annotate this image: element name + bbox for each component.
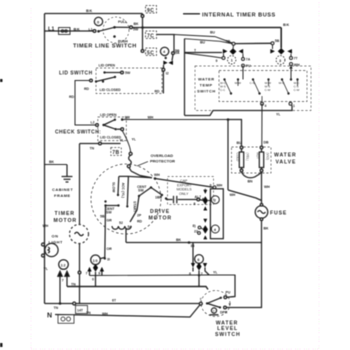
WH riser wire bbox=[227, 118, 262, 200]
svg-text:SWITCH: SWITCH bbox=[215, 332, 241, 338]
svg-text:(YEL): (YEL) bbox=[246, 153, 250, 161]
svg-text:FRAME: FRAME bbox=[54, 193, 71, 198]
cam 3 circle bbox=[276, 56, 285, 65]
pivot dot a bbox=[95, 80, 97, 82]
svg-text:7: 7 bbox=[200, 298, 202, 302]
cam 1 left triangle bbox=[223, 49, 228, 54]
cam 6 left stem lower bbox=[192, 268, 194, 272]
on light bbox=[42, 243, 59, 257]
bottom rail wire y241 bbox=[126, 241, 262, 244]
svg-text:3I: 3I bbox=[107, 258, 110, 262]
svg-text:8): 8) bbox=[193, 224, 196, 228]
svg-text:LID SWITCH: LID SWITCH bbox=[59, 71, 93, 77]
wire y275 rail bbox=[90, 275, 236, 297]
winding arcs bbox=[112, 226, 131, 229]
check blade upper bbox=[104, 120, 115, 125]
top border wire bbox=[45, 13, 143, 15]
svg-text:14T: 14T bbox=[77, 309, 84, 313]
svg-text:LID CLOSED: LID CLOSED bbox=[100, 136, 122, 140]
svg-text:W-C: W-C bbox=[279, 81, 286, 85]
temp switch bottom terminal 1 bbox=[289, 102, 292, 105]
lid switch 5W terminal bbox=[121, 71, 124, 74]
svg-text:BK: BK bbox=[264, 227, 270, 231]
cam 6 right triangle bbox=[203, 263, 207, 268]
bottom rail y303 bbox=[45, 302, 201, 305]
RD wire lid to check switch bbox=[75, 81, 96, 126]
svg-text:7B: 7B bbox=[112, 150, 119, 156]
fuse wire down bbox=[227, 221, 262, 308]
left border wire bbox=[44, 14, 46, 304]
svg-text:GR: GR bbox=[107, 219, 113, 223]
timer cam 3 bbox=[270, 42, 293, 80]
wire T line left vertical bbox=[185, 39, 293, 116]
svg-text:TIMER: TIMER bbox=[55, 211, 75, 217]
OR node dot bbox=[104, 257, 106, 259]
svg-text:ACC (YL): ACC (YL) bbox=[121, 183, 125, 198]
7B box bbox=[111, 148, 122, 156]
lower terminal circle bbox=[121, 128, 124, 131]
wire upper terminal to x235 bbox=[227, 275, 235, 297]
overload leader line bbox=[137, 162, 148, 167]
TN wire to 7B bbox=[80, 142, 121, 225]
acc tap bbox=[127, 176, 128, 205]
svg-text:1BR: 1BR bbox=[155, 196, 162, 200]
cam 4 circle bbox=[160, 47, 168, 55]
pivot contact dot bbox=[97, 30, 100, 33]
contact stubs bbox=[237, 80, 239, 87]
cent sw blades bbox=[139, 188, 151, 197]
WH wire down to temp switch bbox=[290, 69, 292, 80]
svg-text:5C: 5C bbox=[147, 50, 154, 56]
check blade lower bbox=[104, 125, 116, 129]
left riser x=184.5 bbox=[184, 39, 186, 116]
plug inner circle bbox=[61, 317, 65, 321]
cam 3 left stem bbox=[272, 45, 274, 49]
bus vertical wire bbox=[142, 14, 144, 50]
5B crossbar bbox=[235, 42, 271, 44]
wire L1 to timer line switch bbox=[45, 30, 95, 32]
bus wire horizontal bbox=[143, 27, 282, 29]
terminal I2 circle bbox=[162, 68, 165, 71]
svg-text:SW: SW bbox=[106, 211, 112, 215]
cam 4 lower terminals bbox=[198, 226, 201, 229]
upper contact dot bbox=[114, 119, 116, 121]
BU wire upper bbox=[174, 35, 232, 44]
9C box bbox=[146, 6, 157, 14]
cam 3 right triangle bbox=[287, 49, 292, 54]
svg-text:7C: 7C bbox=[147, 33, 154, 39]
cam 4 left triangle bbox=[163, 61, 167, 66]
RD wire down to lid switch bbox=[162, 71, 164, 93]
valve terminal top left bbox=[240, 146, 243, 149]
svg-text:5B: 5B bbox=[175, 49, 180, 53]
timer line switch pivot terminal bbox=[93, 30, 96, 33]
svg-text:ON: ON bbox=[52, 234, 59, 239]
water temp switch outer dashed box bbox=[195, 66, 311, 111]
cam 4 right triangle bbox=[168, 61, 173, 66]
timer line switch bbox=[93, 17, 142, 43]
TN horizontal wire bbox=[80, 143, 121, 145]
cam 6 diamond stem down bbox=[198, 271, 200, 287]
WLS dashed circle bbox=[201, 291, 230, 317]
valve terminal bottom right bbox=[260, 169, 263, 172]
svg-text:BU: BU bbox=[210, 31, 216, 35]
svg-text:LID CLOSED: LID CLOSED bbox=[100, 88, 122, 92]
blade up bbox=[207, 298, 221, 304]
slow tap bbox=[117, 176, 120, 194]
svg-text:1: 1 bbox=[293, 104, 295, 108]
junction dot cam12 bbox=[59, 302, 62, 305]
svg-text:COLD: COLD bbox=[236, 153, 240, 163]
svg-text:CHECK SWITCH:: CHECK SWITCH: bbox=[55, 130, 101, 136]
svg-text:SW: SW bbox=[138, 189, 144, 193]
svg-text:TEMP: TEMP bbox=[200, 83, 213, 88]
svg-text:7: 7 bbox=[62, 279, 64, 283]
T wire bbox=[185, 53, 223, 58]
svg-text:2: 2 bbox=[214, 198, 217, 203]
svg-text:INTERNAL TIMER BUSS: INTERNAL TIMER BUSS bbox=[202, 12, 276, 18]
cam 2 contact triangles bbox=[203, 190, 207, 194]
svg-text:4: 4 bbox=[265, 104, 267, 108]
start winding wire bbox=[130, 196, 139, 222]
lower terminal bbox=[224, 306, 227, 309]
9C terminal circle bbox=[141, 15, 144, 18]
svg-text:LIGHT: LIGHT bbox=[49, 240, 64, 245]
T branch bbox=[185, 52, 223, 54]
svg-text:9: 9 bbox=[98, 272, 100, 276]
14T box bbox=[76, 306, 88, 314]
cam 1 diamond bbox=[230, 48, 237, 54]
svg-text:8: 8 bbox=[194, 202, 196, 206]
pivot dot bbox=[206, 302, 208, 304]
temp switch bottom terminal 4 bbox=[261, 102, 264, 105]
svg-text:START: START bbox=[133, 201, 137, 213]
svg-text:TN: TN bbox=[71, 283, 76, 287]
junction dot bus bbox=[141, 26, 144, 29]
cam 12 left triangle bbox=[58, 271, 62, 303]
cam 1 left stem bbox=[223, 54, 225, 57]
WH wire check switch to right bbox=[124, 119, 229, 121]
timer motor bbox=[70, 225, 89, 304]
capacitor dashed box bbox=[168, 177, 214, 205]
terminal WH circle bbox=[290, 63, 293, 66]
svg-text:WH: WH bbox=[230, 193, 236, 197]
internal timer buss main BK wire bbox=[143, 28, 282, 49]
cam 6 diamond bbox=[196, 263, 201, 271]
svg-text:5B: 5B bbox=[100, 215, 105, 219]
wire lower contact to terminal bbox=[117, 128, 121, 130]
svg-text:MOTOR: MOTOR bbox=[54, 218, 77, 224]
terminal 5B circle bbox=[172, 52, 175, 55]
edge tick top bbox=[0, 79, 3, 82]
BU wire lower bbox=[185, 39, 233, 44]
cam 3 left triangle bbox=[270, 49, 275, 54]
overload protector bbox=[127, 152, 132, 171]
svg-text:9: 9 bbox=[216, 59, 218, 63]
water temp switch inner dashed box bbox=[219, 71, 307, 102]
cam 6 left stem bbox=[192, 243, 194, 264]
PUSH contact dot bbox=[113, 35, 116, 38]
cam 1 right stem bbox=[242, 54, 244, 58]
svg-text:BK: BK bbox=[49, 160, 55, 164]
page border dotted left bbox=[30, 8, 32, 349]
wire temp contact stubs to terminals bbox=[261, 96, 263, 102]
svg-text:BK: BK bbox=[134, 22, 140, 26]
vertical x228 bbox=[227, 120, 229, 191]
wire PULL contact to terminal bbox=[115, 26, 130, 28]
motor lower blade bbox=[106, 205, 119, 207]
legend line bbox=[183, 13, 200, 15]
cam 1 right triangle bbox=[239, 49, 244, 54]
noise filter box bbox=[59, 28, 71, 35]
svg-text:TN: TN bbox=[86, 311, 91, 315]
svg-text:N: N bbox=[47, 313, 52, 320]
svg-text:12: 12 bbox=[61, 263, 67, 268]
svg-text:LID OPEN: LID OPEN bbox=[100, 113, 117, 117]
temp switch tiny labels bbox=[220, 81, 300, 92]
cam 12 right triangle bbox=[65, 271, 69, 286]
svg-text:WATER: WATER bbox=[274, 153, 297, 159]
valve terminal top right bbox=[260, 146, 263, 149]
cam 4 left stem bbox=[163, 65, 165, 68]
cam 3 diamond bbox=[278, 48, 285, 54]
timer cam 2 bbox=[203, 189, 220, 211]
7C box bbox=[146, 31, 157, 39]
svg-text:RD: RD bbox=[155, 90, 161, 94]
blade 3 bbox=[282, 80, 289, 94]
coil leads bbox=[241, 149, 243, 152]
cam 4 follower dot bbox=[165, 57, 167, 59]
diaphragm circle bbox=[211, 308, 216, 313]
node dot on WH wire bbox=[227, 118, 230, 121]
cam2 box top terminal bbox=[213, 186, 216, 189]
text CAP EXPORT MODELS ONLY bbox=[177, 179, 193, 196]
svg-text:7A: 7A bbox=[246, 58, 251, 62]
svg-text:54: 54 bbox=[128, 225, 132, 229]
svg-text:CABINET: CABINET bbox=[52, 187, 73, 192]
svg-text:LID OPEN: LID OPEN bbox=[99, 64, 116, 68]
valve common wires bbox=[242, 172, 262, 178]
pivot dot b bbox=[102, 80, 104, 82]
cam 3 right stem bbox=[290, 54, 292, 57]
neutral wire bbox=[55, 305, 200, 318]
svg-text:VALVE: VALVE bbox=[276, 160, 297, 166]
svg-text:A) 7: A) 7 bbox=[195, 195, 202, 199]
timer terminal bus 9C-7C-5C bbox=[141, 6, 156, 56]
svg-text:L1: L1 bbox=[89, 28, 93, 32]
svg-text:L1: L1 bbox=[48, 27, 54, 33]
cam 10 right stem bbox=[101, 272, 103, 276]
terminal 7T circle bbox=[290, 57, 293, 60]
fuse bbox=[227, 204, 268, 308]
lid switch bbox=[90, 68, 162, 94]
PULL contact dot bbox=[113, 26, 116, 29]
svg-text:9: 9 bbox=[210, 183, 212, 187]
svg-text:C-S: C-S bbox=[250, 81, 255, 85]
svg-text:WH: WH bbox=[217, 183, 223, 187]
svg-text:5W: 5W bbox=[125, 71, 131, 75]
YL wire across bottom bbox=[185, 105, 293, 115]
lid switch dashed box bbox=[96, 68, 162, 94]
blade tip dot bbox=[114, 76, 116, 78]
svg-text:W-W: W-W bbox=[235, 81, 242, 85]
5B terminal circle bbox=[232, 42, 235, 45]
bus wire drop right bbox=[280, 28, 282, 49]
terminal circle timer motor bbox=[73, 302, 76, 305]
svg-text:6: 6 bbox=[197, 257, 200, 262]
svg-text:F: F bbox=[213, 309, 215, 313]
svg-text:BK: BK bbox=[86, 8, 93, 13]
cam 1 stem bbox=[232, 45, 234, 48]
plug box bbox=[58, 315, 74, 324]
svg-text:5W: 5W bbox=[133, 28, 139, 32]
timer cam 4 lower bbox=[198, 219, 220, 240]
svg-text:DRIVE: DRIVE bbox=[150, 209, 170, 215]
lid switch blade bbox=[96, 77, 115, 82]
timer cam 6 bbox=[191, 243, 209, 287]
svg-text:PULL: PULL bbox=[118, 20, 128, 24]
5C box bbox=[146, 48, 157, 56]
svg-text:4: 4 bbox=[163, 49, 166, 54]
upper contact dot bbox=[103, 71, 105, 73]
terminal PU circle bbox=[242, 64, 245, 67]
cam 6 left triangle bbox=[191, 263, 195, 268]
blade 1 bbox=[225, 80, 232, 94]
motor internal top edge bbox=[119, 176, 152, 177]
cent sw contact dots bbox=[138, 195, 140, 197]
svg-text:TIMER LINE SWITCH: TIMER LINE SWITCH bbox=[73, 44, 137, 50]
svg-text:RD: RD bbox=[137, 220, 143, 224]
svg-text:7: 7 bbox=[86, 272, 88, 276]
valve dashed box bbox=[232, 147, 272, 173]
svg-text:4: 4 bbox=[214, 227, 217, 232]
svg-text:(VIO): (VIO) bbox=[266, 153, 270, 161]
terminal 7A circle bbox=[242, 58, 245, 61]
svg-text:0: 0 bbox=[92, 278, 94, 282]
wire terminal to bus bbox=[133, 27, 143, 29]
cam 6 right stem lower bbox=[205, 268, 209, 275]
svg-text:SWITCH: SWITCH bbox=[197, 89, 216, 94]
svg-text:10: 10 bbox=[93, 258, 99, 263]
page border dotted right bbox=[318, 2, 320, 349]
check pivot dot bbox=[102, 124, 104, 126]
upper terminal dot bbox=[121, 118, 124, 121]
svg-text:C-W: C-W bbox=[265, 88, 271, 92]
svg-text:WATER: WATER bbox=[198, 77, 215, 82]
svg-text:TN: TN bbox=[90, 147, 95, 151]
contact dot row bbox=[223, 78, 225, 80]
svg-text:1: 1 bbox=[231, 58, 234, 63]
upper terminal bbox=[224, 296, 227, 299]
node dot 34 bbox=[188, 241, 191, 244]
svg-text:BK: BK bbox=[74, 27, 81, 32]
svg-text:3: 3 bbox=[279, 58, 282, 63]
svg-text:L2: L2 bbox=[91, 121, 95, 125]
svg-text:WH: WH bbox=[264, 185, 270, 189]
timer cam 0 circle bbox=[94, 17, 102, 25]
branch to valve bbox=[228, 120, 242, 147]
svg-text:DPR: DPR bbox=[220, 311, 228, 315]
svg-text:RD: RD bbox=[69, 95, 75, 99]
svg-text:OR: OR bbox=[107, 247, 113, 251]
5C terminal circle bbox=[141, 50, 144, 53]
svg-text:2P: 2P bbox=[137, 214, 142, 218]
svg-text:BK: BK bbox=[176, 238, 182, 242]
cam 2-4 block box bbox=[210, 189, 223, 239]
cam 2 contact stems bbox=[204, 189, 206, 190]
OR wire motor to cam 10 bbox=[101, 206, 106, 259]
svg-text:DB: DB bbox=[264, 141, 270, 145]
WH node dot bbox=[154, 177, 157, 180]
svg-text:C-C: C-C bbox=[220, 88, 226, 92]
svg-text:OVERLOAD: OVERLOAD bbox=[151, 153, 174, 158]
svg-text:WH: WH bbox=[43, 224, 49, 228]
7C wire to cam 4 bbox=[157, 35, 174, 52]
timer cam 10 bbox=[87, 255, 106, 287]
YL wire to overload bbox=[122, 131, 130, 153]
svg-text:BU: BU bbox=[200, 41, 206, 45]
svg-text:PROTECTOR: PROTECTOR bbox=[150, 159, 175, 164]
svg-text:WH: WH bbox=[154, 173, 160, 177]
PU wire down to temp switch bbox=[242, 67, 244, 79]
cam 1 circle bbox=[228, 56, 236, 64]
start lead down bbox=[125, 228, 127, 243]
svg-text:WH: WH bbox=[148, 115, 154, 119]
cam 10 left stem bbox=[89, 272, 91, 276]
svg-text:BU: BU bbox=[237, 141, 243, 145]
TN wire terminal circle bbox=[99, 142, 102, 145]
svg-text:HOT: HOT bbox=[256, 153, 260, 160]
timer motor wire through bbox=[79, 244, 81, 304]
capacitor symbol bbox=[166, 196, 203, 204]
check switch bbox=[96, 117, 127, 141]
lid switch pivot terminal bbox=[90, 79, 93, 82]
WLS pivot terminal bbox=[199, 302, 202, 305]
svg-text:52: 52 bbox=[119, 221, 123, 225]
hot solenoid coil bbox=[259, 152, 263, 168]
svg-text:WH: WH bbox=[102, 312, 108, 316]
cam 1 left terminal bbox=[222, 57, 225, 60]
cam 0 dashed cam profile bbox=[103, 17, 129, 43]
cam 10 diamond stem bbox=[95, 272, 97, 287]
wire temp terminal 4 down bbox=[261, 104, 263, 106]
timer cam 4 bbox=[157, 35, 174, 94]
blade 2 bbox=[253, 80, 260, 94]
PULL terminal circle bbox=[130, 26, 133, 29]
svg-text:TN: TN bbox=[54, 306, 59, 310]
check switch pivot terminal bbox=[96, 124, 99, 127]
cam 10 right triangle bbox=[100, 267, 104, 272]
svg-text:22: 22 bbox=[194, 230, 198, 234]
svg-text:BK: BK bbox=[283, 22, 290, 27]
cold solenoid coil bbox=[239, 152, 243, 168]
noise filter coil bbox=[61, 30, 64, 33]
motor left contacts bbox=[104, 200, 106, 202]
cam 3 left terminal circle bbox=[271, 42, 274, 45]
cam 4 contact triangles bbox=[203, 219, 207, 223]
edge tick bottom bbox=[0, 343, 3, 347]
svg-text:C-W: C-W bbox=[294, 88, 300, 92]
wire upper contact to terminal bbox=[105, 72, 121, 74]
drive motor dashed circle bbox=[91, 164, 161, 234]
svg-text:0: 0 bbox=[97, 19, 100, 24]
ground symbol bbox=[62, 165, 73, 183]
svg-text:BN: BN bbox=[248, 180, 254, 184]
water valve bbox=[232, 146, 272, 204]
cam 10 left triangle bbox=[87, 267, 91, 272]
timer cam 1 bbox=[185, 42, 245, 79]
check switch dashed box bbox=[98, 117, 127, 141]
